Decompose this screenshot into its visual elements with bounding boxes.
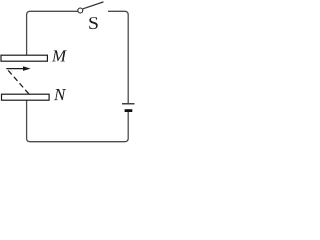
label N: [54, 89, 66, 100]
label M: [52, 50, 67, 61]
battery negative plate (short thick): [125, 109, 133, 112]
capacitor plate N: [2, 94, 50, 100]
wire from plate M up and across to switch: [27, 11, 78, 55]
dashed line from arrow region to plate N: [8, 70, 30, 95]
switch S lever: [83, 2, 104, 9]
battery positive plate (long): [122, 103, 135, 105]
arrow between plates (motion direction): [6, 66, 30, 71]
switch S hinge circle: [78, 8, 83, 13]
wire from switch to top-right corner down to battery: [108, 11, 128, 103]
wire from battery down, along bottom, up to plate N: [27, 100, 129, 141]
capacitor plate M: [1, 55, 47, 61]
label S: [89, 17, 97, 29]
